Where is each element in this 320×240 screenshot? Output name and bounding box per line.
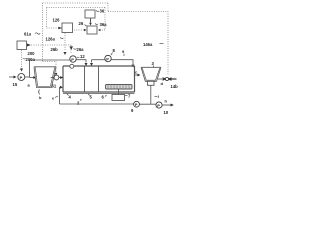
svg-text:P: P — [106, 56, 109, 61]
wire dotted 200 output line 26b — [22, 45, 72, 69]
arrowhead 126a line onto pipe — [64, 52, 67, 55]
valve 61 — [54, 75, 59, 80]
arrow into box 26 from left — [84, 29, 87, 31]
tank 2 outline — [63, 66, 135, 92]
vessel 3 outlet box — [148, 81, 155, 85]
svg-text:P: P — [157, 103, 160, 108]
box 26 — [87, 26, 97, 34]
wire vessel 3 downpipe — [150, 86, 152, 105]
svg-text:200: 200 — [28, 51, 36, 56]
svg-text:b: b — [39, 95, 42, 100]
box 36 — [85, 10, 95, 18]
wire main pipe to gauge 12 — [30, 59, 70, 61]
wire pipe between pumps — [139, 103, 156, 105]
arrow box 36 to box 26 — [90, 19, 92, 23]
tick label 8 — [111, 53, 113, 56]
svg-text:126: 126 — [53, 18, 61, 23]
wire pipe gauge 12 to tank drop — [76, 60, 86, 63]
svg-text:8: 8 — [113, 48, 116, 53]
arrow into box 26 from right — [98, 29, 101, 31]
pump P 15 — [18, 74, 25, 81]
svg-text:P: P — [20, 75, 23, 80]
sensor notch on tank top — [70, 64, 74, 68]
arrowhead control onto valve 61 — [55, 73, 58, 76]
wire pump 15 to T junction — [25, 76, 30, 78]
wire dotted inner control line top — [47, 8, 106, 31]
wire second drop arrow — [91, 60, 93, 63]
svg-text:3: 3 — [152, 61, 155, 66]
svg-text:P: P — [135, 103, 138, 107]
wire membrane to box 7 — [118, 89, 120, 95]
wire dotted 126 down line 126a/26a — [65, 30, 84, 51]
svg-text:6: 6 — [102, 95, 105, 100]
box 7 aerator — [112, 95, 125, 101]
svg-text:a: a — [28, 83, 31, 88]
arrow 200 box output — [27, 44, 31, 47]
svg-text:e: e — [52, 96, 55, 101]
wire dotted outer control line top — [43, 3, 169, 75]
svg-text:f: f — [158, 94, 160, 99]
wire riser return to tank — [59, 87, 62, 104]
svg-text:2: 2 — [77, 101, 80, 106]
svg-text:P: P — [71, 57, 74, 62]
divider wall 1 — [84, 66, 86, 92]
box 126 — [62, 23, 73, 33]
wire tank overflow to vessel 3 — [135, 74, 138, 76]
arrow into box 126 — [58, 27, 62, 29]
wire riser to top pipe — [29, 60, 31, 77]
svg-text:12: 12 — [80, 54, 85, 59]
wire valve 61 into tank — [59, 77, 61, 79]
divider wall 2 — [98, 66, 100, 92]
svg-text:36: 36 — [100, 9, 105, 14]
membrane module 6 — [106, 85, 133, 90]
svg-text:26: 26 — [79, 21, 84, 26]
svg-text:5: 5 — [90, 95, 93, 100]
box 200 — [17, 41, 27, 50]
svg-text:10: 10 — [164, 110, 169, 115]
svg-text:61: 61 — [52, 84, 57, 89]
wire arrow into vessel 5 — [30, 77, 34, 79]
svg-text:4: 4 — [69, 95, 72, 100]
svg-text:200a: 200a — [26, 57, 36, 62]
svg-text:126a: 126a — [46, 37, 56, 42]
gauge P 8 — [105, 55, 111, 61]
wire vessel 5 to valve 61 — [51, 77, 55, 79]
vessel 5 trapezoid — [34, 67, 56, 88]
wire pipe gauge 8 to right drop — [111, 60, 133, 64]
pump P 10 — [156, 102, 162, 108]
svg-text:7: 7 — [128, 94, 131, 99]
svg-text:9: 9 — [131, 108, 134, 113]
svg-text:15: 15 — [13, 82, 18, 87]
svg-text:h: h — [165, 99, 168, 104]
svg-text:61a: 61a — [24, 32, 32, 37]
valve 14b — [163, 77, 172, 80]
svg-text:14b: 14b — [171, 84, 179, 89]
svg-text:146a: 146a — [143, 42, 153, 47]
svg-text:9: 9 — [122, 49, 125, 54]
arrowhead 200a line onto pump 15 — [20, 69, 23, 72]
vessel 5 outlet stub — [38, 90, 41, 93]
wire vessel 3 to valve 14b — [158, 78, 162, 80]
gauge P 12 — [70, 56, 76, 62]
svg-text:36a: 36a — [100, 22, 108, 27]
vessel 3 trapezoid — [141, 67, 161, 81]
svg-text:d: d — [161, 81, 164, 86]
pump P 9 — [134, 101, 140, 107]
svg-text:26b: 26b — [51, 47, 59, 52]
arrowhead junction 26a — [69, 46, 73, 50]
wire bottom recirculation pipe — [60, 103, 134, 105]
wire pipe to gauge 8 — [92, 59, 105, 61]
wire valve 14b outlet — [172, 78, 177, 80]
svg-text:26a: 26a — [77, 47, 85, 52]
wire feed arrow into pump 15 — [9, 76, 14, 78]
wire pump 10 outlet arrow — [162, 104, 171, 106]
